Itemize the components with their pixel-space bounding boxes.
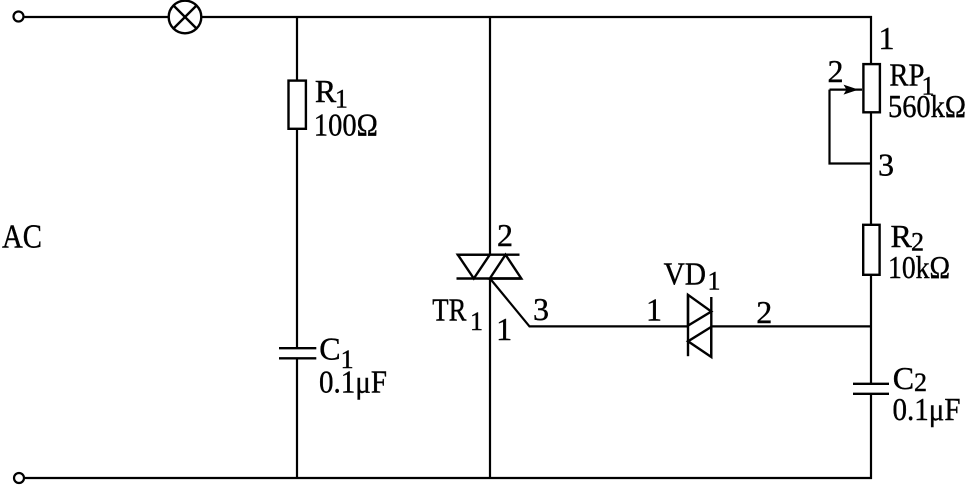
- wire: top wire down to TR1 pin 2: [489, 16, 491, 255]
- terminal top-left: [14, 12, 24, 22]
- resistor R2 body: [863, 225, 879, 275]
- wire right vertical: R2 to C2: [870, 275, 872, 384]
- wire: R1 to C1: [296, 129, 298, 348]
- svg-text:VD: VD: [664, 256, 706, 292]
- wire: top wire down to R1: [296, 16, 298, 81]
- wire top: lamp to top-right corner: [201, 16, 872, 18]
- wire right vertical: C2 to bottom wire: [870, 394, 872, 479]
- diac VD1 symbol: [688, 294, 711, 357]
- wire RP1 wiper to tap 3: [830, 90, 872, 164]
- svg-text:R: R: [315, 73, 337, 109]
- svg-text:3: 3: [878, 147, 894, 183]
- svg-text:2: 2: [828, 53, 844, 89]
- wire bottom: [25, 477, 873, 479]
- svg-text:560kΩ: 560kΩ: [888, 88, 965, 124]
- wire: diac VD1 to right vertical (node between R2 and C2): [711, 325, 872, 327]
- svg-text:0.1μF: 0.1μF: [319, 363, 387, 399]
- svg-text:1: 1: [646, 292, 662, 328]
- svg-text:C: C: [319, 331, 340, 367]
- svg-text:100Ω: 100Ω: [314, 107, 378, 143]
- wire top: terminal to lamp: [25, 16, 169, 18]
- svg-text:1: 1: [496, 311, 512, 347]
- resistor R1 body: [289, 81, 306, 129]
- wire: TR1 pin 1 down to bottom wire: [489, 279, 491, 480]
- triac TR1 symbol: [457, 255, 522, 279]
- svg-text:1: 1: [708, 267, 721, 296]
- capacitor C1 plates: [279, 348, 316, 358]
- terminal bottom-left: [14, 473, 24, 483]
- svg-text:2: 2: [756, 294, 772, 330]
- svg-text:TR: TR: [432, 292, 467, 328]
- svg-text:AC: AC: [2, 219, 42, 256]
- wire right vertical: corner to RP1: [870, 16, 872, 65]
- svg-text:0.1μF: 0.1μF: [893, 391, 961, 427]
- RP1 wiper arrow: [830, 88, 863, 90]
- wire: C1 to bottom wire: [296, 358, 298, 479]
- svg-text:1: 1: [879, 20, 895, 56]
- potentiometer RP1 body: [863, 64, 880, 112]
- svg-text:2: 2: [497, 217, 513, 253]
- wire: TR1 gate (pin 3) to diac VD1: [490, 279, 688, 327]
- svg-text:3: 3: [533, 291, 549, 327]
- lamp EL: [169, 1, 202, 34]
- svg-text:1: 1: [470, 307, 483, 336]
- svg-text:10kΩ: 10kΩ: [888, 249, 950, 285]
- wire right vertical: RP1 to R2: [870, 112, 872, 225]
- capacitor C2 plates: [853, 384, 889, 394]
